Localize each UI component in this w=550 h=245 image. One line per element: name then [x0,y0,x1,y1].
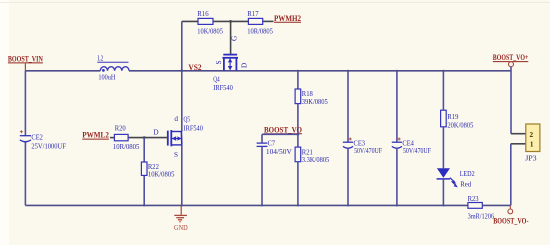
inductor L2 [97,55,129,82]
svg-text:BOOST_VO-: BOOST_VO- [493,217,528,226]
resistor R20 [113,125,140,151]
node junction R16/R17/gate [229,20,232,23]
wire LED2 bottom [442,179,444,206]
port BOOST_VO [264,125,302,134]
svg-text:PWML2: PWML2 [82,131,109,140]
port PWML2 [82,131,109,140]
svg-text:R18: R18 [302,90,313,98]
wire C7 top [261,134,263,143]
node junction R19 top [442,70,444,72]
wire vertical R16 to rail [181,21,183,70]
svg-text:10K/0805: 10K/0805 [197,28,223,36]
svg-text:JP3: JP3 [525,154,537,162]
wire left vertical top (CE2 top) [24,71,26,136]
svg-text:104/50V: 104/50V [266,148,293,156]
wire rail L2 to right end [129,70,511,72]
svg-text:GND: GND [174,224,188,232]
node junction VS2 [180,69,183,72]
wire Q5 drain vertical [181,71,183,132]
svg-text:S: S [215,61,223,65]
wire JP3 pin1 vertical down [510,144,512,206]
wire left vertical bottom (CE2 bottom) [24,141,26,205]
port BOOST_VIN [8,55,43,71]
svg-text:VS2: VS2 [188,63,201,72]
svg-text:3.3K/0805: 3.3K/0805 [302,156,330,164]
resistor R19 [441,110,474,130]
wire R22 bottom to rail [143,175,145,205]
wire C7 bottom [261,146,263,205]
svg-text:Red: Red [460,180,471,188]
capacitor C7 [257,139,293,155]
node junction CE4 top [396,70,398,72]
svg-text:R19: R19 [447,113,458,121]
wire CE4 bottom [396,148,398,205]
wire PWML2 to R20 [110,137,114,139]
wire JP3 pin1 stub [511,143,526,145]
resistor R22 [141,162,174,179]
ground GND [174,205,188,232]
svg-text:10R/0805: 10R/0805 [247,28,273,36]
svg-text:D: D [153,129,158,137]
transistor Q4 [213,36,248,92]
node junction CE3 top [347,70,349,72]
wire R20 to Q5 gate [128,137,167,139]
svg-text:G: G [231,36,239,41]
resistor R17 [247,10,273,35]
node junction R22 bottom [143,204,145,206]
svg-text:PWMH2: PWMH2 [274,14,301,23]
node junction GND [181,204,183,206]
port BOOST_VO+ [493,53,529,66]
svg-text:LED2: LED2 [460,170,475,178]
svg-text:R20: R20 [115,125,126,133]
wire R16 row left [182,20,198,22]
wire JP3 pin2 stub [511,133,526,135]
wire BOOST_VO+ vertical to JP3 pin2 [510,67,512,134]
svg-text:39K/0805: 39K/0805 [302,98,328,106]
wire R18 to BOOST_VO node [297,104,299,148]
node junction R22 tap [143,136,146,139]
node junction CE3 bottom [347,204,349,206]
svg-text:50V/470UF: 50V/470UF [403,147,431,155]
wire R21 bottom to rail [297,162,299,206]
transistor Q5 [153,115,203,159]
svg-text:d: d [174,115,178,123]
wire R22 top [143,138,145,162]
resistor R23 [468,195,495,220]
svg-text:S: S [174,151,178,159]
svg-text:1: 1 [530,141,534,149]
port BOOST_VO- [493,205,528,225]
wire R19 to LED2 [442,127,444,169]
svg-text:R23: R23 [468,195,479,203]
svg-text:Q5: Q5 [184,115,191,123]
wire BOOST_VO node horizontal [262,133,298,135]
resistor R18 [295,89,328,106]
connector JP3 [525,124,540,162]
svg-text:3mR/1206: 3mR/1206 [468,212,495,220]
svg-text:BOOST_VO: BOOST_VO [264,125,302,134]
main rail wire [25,70,100,72]
port PWMH2 [274,14,301,23]
node junction C7 bottom [261,204,263,206]
wire R16 to R17 [213,20,248,22]
svg-text:CE2: CE2 [31,134,43,142]
wire CE3 bottom [347,148,349,205]
svg-text:50V/470UF: 50V/470UF [354,147,382,155]
wire Q4 gate vertical [230,21,232,54]
svg-text:IRF540: IRF540 [213,84,233,92]
resistor R16 [197,10,223,35]
capacitor CE4 [392,138,431,155]
svg-text:25V/1000UF: 25V/1000UF [31,142,66,150]
capacitor CE3 [343,138,382,155]
svg-text:20K/0805: 20K/0805 [447,122,473,130]
wire R18 top vertical [297,71,299,89]
svg-text:10R/0805: 10R/0805 [113,143,140,151]
node junction R18 top [297,70,299,72]
svg-text:D: D [241,63,249,68]
node junction BOOST_VO [297,133,300,136]
capacitor CE2 [20,130,66,150]
svg-text:R16: R16 [197,10,209,18]
wire Q5 source vertical to bottom rail [181,145,183,206]
resistor R21 [295,147,330,164]
svg-text:R21: R21 [302,148,313,156]
svg-text:BOOST_VO+: BOOST_VO+ [493,53,529,62]
node junction R21 bottom [297,204,299,206]
svg-text:10K/0805: 10K/0805 [148,171,175,179]
svg-text:100uH: 100uH [98,73,115,81]
svg-text:Q4: Q4 [213,76,220,84]
svg-text:2: 2 [530,131,534,139]
LED LED2 [437,168,475,188]
wire bottom rail right [482,204,511,206]
svg-text:L2: L2 [98,55,104,63]
wire CE4 top [396,71,398,142]
wire R17 to PWMH2 [263,20,274,22]
svg-text:R17: R17 [247,10,259,18]
node junction LED2 bottom [442,204,444,206]
svg-text:BOOST_VIN: BOOST_VIN [8,55,43,64]
svg-text:C7: C7 [268,139,276,147]
svg-text:IRF540: IRF540 [184,124,204,132]
node junction CE4 bottom [396,204,398,206]
wire CE3 top [347,71,349,142]
wire R19 top [442,71,444,110]
wire bottom rail left [25,204,468,206]
